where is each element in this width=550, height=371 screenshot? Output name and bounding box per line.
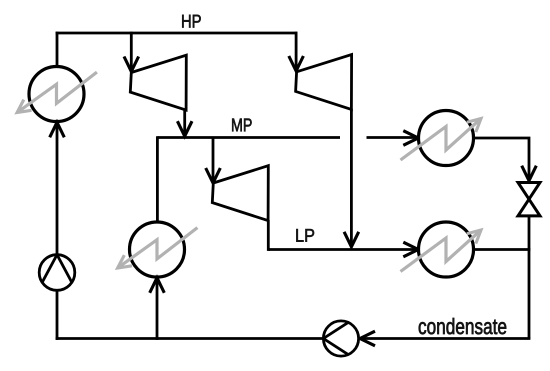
wire condensate header	[360, 337, 530, 340]
arrow onto LP header	[344, 232, 359, 247]
arrow into T3 inlet	[206, 168, 221, 183]
turbine T3 (MP)	[212, 166, 268, 221]
wire HP header	[56, 32, 298, 35]
wire condensate return	[56, 337, 324, 340]
heat exchanger HX2	[118, 222, 198, 277]
wire left riser lower	[56, 290, 59, 340]
label MP	[232, 119, 251, 132]
wire turbine T1 inlet drop	[130, 32, 133, 72]
heat exchanger HX4	[401, 222, 482, 277]
wire T2 exhaust to LP header	[350, 109, 353, 246]
wire HX3 outlet elbow	[474, 138, 530, 180]
wire HX2 riser	[156, 279, 159, 340]
pump P2 (feed)	[39, 255, 75, 291]
arrow into HX3	[403, 131, 418, 146]
arrow into valve	[522, 166, 537, 181]
wire MP header right	[367, 136, 418, 139]
wire pump P1 suction stub	[358, 337, 360, 340]
arrow into pump P1	[360, 331, 375, 346]
wire left riser upper	[56, 123, 59, 255]
label condensate	[419, 318, 507, 334]
valve V1	[518, 183, 540, 216]
wire HX4 outlet	[474, 248, 531, 251]
label LP	[296, 229, 314, 242]
arrow into T2 inlet	[289, 56, 304, 71]
wire T3 inlet drop	[212, 138, 215, 184]
wire valve to condensate corner	[528, 216, 531, 339]
label HP	[182, 15, 201, 28]
heat exchanger HX3	[401, 111, 482, 166]
turbine T2 (HP)	[296, 55, 352, 110]
arrow into T1 inlet	[124, 57, 139, 72]
turbine T1 (HP)	[130, 55, 186, 110]
wire LP header	[268, 248, 417, 251]
wire MP to HX2 drop	[156, 136, 159, 222]
wire HX1 inlet drop	[56, 32, 59, 67]
pump P1 (condensate)	[323, 321, 358, 356]
wire T1 exhaust to MP header	[183, 110, 186, 137]
arrow onto MP header	[177, 121, 192, 136]
arrow into HX2	[150, 278, 165, 293]
arrow into HX4	[403, 242, 418, 257]
wire turbine T2 inlet drop	[295, 32, 298, 71]
wire T3 exhaust elbow	[268, 220, 270, 250]
wire MP header left	[157, 136, 340, 139]
heat exchanger HX1	[17, 67, 97, 122]
arrow into HX1	[50, 122, 65, 137]
